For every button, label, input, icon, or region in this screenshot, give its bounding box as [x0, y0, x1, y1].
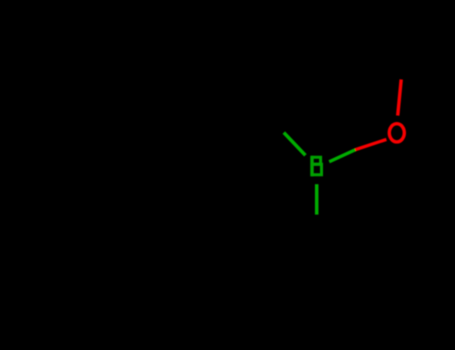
atom label B (boron, green): [311, 156, 322, 177]
bond CH3-B (upper-left methyl to boron): [284, 133, 306, 156]
bond B-O red half (oxygen side): [355, 139, 386, 149]
atom label O (oxygen, red): [389, 124, 404, 142]
bond B-CH3 (boron to lower methyl, vertical): [315, 184, 319, 214]
bond B-O green half (boron side): [329, 150, 355, 162]
bond O-CH3 (oxygen to upper methyl): [398, 79, 402, 115]
